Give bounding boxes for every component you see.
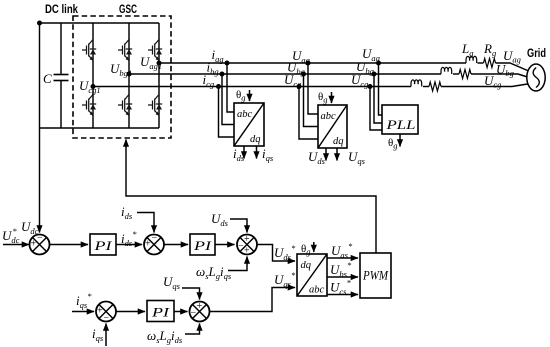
- block PI 1: [90, 234, 116, 255]
- wire ids into junction2: [137, 213, 154, 223]
- wire wsLgiqs into junction3: [228, 266, 247, 271]
- wire Ucg to abc-dq2: [299, 87, 318, 140]
- wire iqs output: [256, 146, 258, 159]
- wire junction1 to PI1: [50, 244, 89, 246]
- wire Uag to abc-dq2: [308, 63, 318, 114]
- node ibg tap: [220, 72, 225, 77]
- svg-text:PI: PI: [93, 238, 112, 253]
- inductor Lg phase c: [411, 80, 422, 87]
- wire wsLgids into junction5: [185, 330, 200, 334]
- svg-text:+: +: [145, 239, 151, 250]
- capacitor C top lead: [60, 23, 62, 75]
- wire phase line b: [129, 73, 441, 75]
- wire Uas-ref to PWM: [327, 257, 358, 259]
- summing junction 4: [96, 302, 116, 322]
- resistor Rg phase a: [484, 59, 496, 68]
- wire PI2 to junction3: [215, 244, 235, 246]
- wire Udc-ref input: [3, 244, 29, 246]
- wire Udc into summing junction 1: [39, 231, 41, 233]
- wire theta-g PLL output: [399, 134, 401, 147]
- block PWM: [360, 253, 391, 298]
- wire PI1 to junction2: [116, 244, 142, 246]
- wire Uag to PLL: [379, 63, 383, 115]
- transistor lower leg-b IGBT: [118, 95, 132, 116]
- svg-text:+: +: [31, 239, 37, 250]
- svg-text:−: −: [191, 308, 197, 319]
- transistor upper leg-b IGBT: [118, 40, 132, 61]
- node icg tap: [216, 84, 221, 89]
- wire theta into abc-dq1: [249, 90, 251, 101]
- wire Ucg to PLL: [370, 87, 382, 131]
- resistor Rg phase c: [429, 82, 441, 91]
- svg-text:+: +: [244, 234, 250, 245]
- transistor upper leg-a IGBT: [148, 40, 162, 61]
- wire phase line b mid: [453, 73, 459, 75]
- wire theta into abc-dq2: [331, 92, 333, 103]
- svg-text:−: −: [152, 233, 158, 244]
- wire phase line b to grid: [471, 74, 528, 77]
- wire Uds into junction3: [230, 219, 247, 223]
- wire junction3 to dq-abc: [257, 245, 280, 262]
- wire junction5 to dq-abc: [210, 288, 281, 312]
- svg-text:Grid: Grid: [527, 48, 546, 60]
- node Ucg1: [91, 84, 96, 89]
- summing junction 2: [144, 235, 164, 255]
- node Ubg1: [127, 72, 132, 77]
- svg-text:+: +: [97, 306, 103, 317]
- svg-text:PWM: PWM: [362, 268, 389, 283]
- svg-text:abc: abc: [321, 111, 337, 122]
- svg-text:+: +: [197, 301, 203, 312]
- capacitor C bottom lead: [60, 81, 62, 129]
- wire iag to abc-dq1: [227, 63, 234, 112]
- capacitor C plates: [54, 74, 69, 76]
- svg-text:−: −: [37, 233, 43, 244]
- wire Uqs into junction5: [182, 288, 200, 292]
- wire Ucs-ref to PWM: [327, 294, 358, 296]
- svg-text:PLL: PLL: [385, 117, 415, 132]
- wire phase line a: [159, 62, 466, 64]
- wire Uqs output: [336, 148, 338, 161]
- wire converter leg c: [92, 23, 94, 128]
- wire phase line c to grid: [441, 84, 528, 87]
- svg-text:dq: dq: [301, 260, 312, 271]
- node Ucg tap2: [368, 84, 373, 89]
- transistor lower leg-a IGBT: [148, 95, 162, 116]
- wire bottom DC rail: [40, 127, 160, 129]
- svg-text:abc: abc: [237, 109, 253, 120]
- wire iqs-ref input: [72, 311, 94, 313]
- wire ibg to abc-dq1: [222, 74, 234, 125]
- node Uag tap1: [306, 61, 311, 66]
- wire junction4 to PI3: [116, 311, 145, 313]
- wire iqs into junction4: [105, 324, 107, 347]
- wire PI3 to junction5: [174, 311, 188, 313]
- block PI 2: [190, 234, 215, 255]
- svg-text:C: C: [43, 71, 52, 86]
- svg-text:GSC: GSC: [119, 4, 137, 16]
- transistor lower leg-c IGBT: [82, 95, 96, 116]
- block dq-abc: [297, 254, 327, 296]
- wire phase line c: [93, 86, 411, 88]
- node Ubg tap2: [372, 72, 377, 77]
- wire junction2 to PI2: [164, 244, 188, 246]
- wire theta into dq-abc: [313, 242, 315, 252]
- wire Uds output: [325, 148, 327, 161]
- wire Ubg to PLL: [374, 74, 382, 123]
- wire top DC rail: [40, 22, 160, 24]
- wire Ubs-ref to PWM: [327, 276, 358, 278]
- block PLL: [382, 105, 418, 134]
- svg-text:PI: PI: [193, 238, 212, 253]
- svg-text:−: −: [104, 313, 110, 324]
- node Uag1: [157, 61, 162, 66]
- node top-left junction: [37, 21, 42, 26]
- wire phase line a to grid: [496, 63, 528, 71]
- wire converter leg a: [158, 23, 160, 128]
- wire ids output: [243, 146, 245, 159]
- node Uag tap2: [376, 61, 381, 66]
- svg-text:dq: dq: [333, 136, 344, 147]
- svg-text:dq: dq: [250, 134, 261, 145]
- grid AC source: [527, 64, 545, 91]
- summing junction 3: [237, 235, 257, 255]
- svg-text:DC link: DC link: [45, 4, 78, 16]
- wire phase line a after L: [478, 62, 484, 64]
- svg-text:PI: PI: [151, 305, 170, 320]
- summing junction 5: [190, 302, 210, 322]
- summing junction 1: [30, 235, 50, 255]
- svg-text:abc: abc: [309, 285, 325, 296]
- inductor Lg phase b: [441, 67, 452, 74]
- node Ubg tap1: [301, 72, 306, 77]
- node iag tap: [225, 61, 230, 66]
- block abc-dq current transform: [234, 103, 264, 146]
- wire icg to abc-dq1: [219, 87, 235, 138]
- node Ucg tap1: [297, 84, 302, 89]
- wire PWM feedback to GSC: [126, 150, 376, 253]
- block PI 3: [147, 301, 174, 322]
- block abc-dq voltage transform: [318, 105, 347, 148]
- wire converter leg b: [128, 23, 130, 128]
- inductor Lg phase a: [466, 56, 477, 63]
- svg-text:+: +: [244, 246, 250, 257]
- wire phase line c mid: [423, 86, 429, 88]
- GSC dashed box: [73, 16, 171, 138]
- transistor upper leg-c IGBT: [82, 40, 96, 61]
- wire Ubg to abc-dq2: [304, 74, 319, 127]
- wire left DC rail down to summing junction: [39, 23, 41, 231]
- resistor Rg phase b: [459, 70, 471, 79]
